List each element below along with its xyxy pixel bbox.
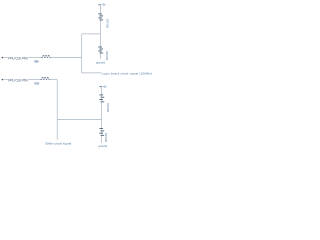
resistor R0336 (bottom chain upper) [99, 95, 104, 102]
power +5V (top chain) [98, 3, 106, 7]
wire R0337 to corner [49, 79, 57, 81]
resistor R0333 (top chain upper) [98, 14, 103, 20]
wire +5V to R0333 [100, 5, 102, 14]
svg-text:50khz clock signal: 50khz clock signal [45, 142, 71, 146]
wire left leg down [81, 34, 83, 73]
wire vertical drop (row 2 net) [56, 80, 58, 140]
wire to logic board label [82, 72, 102, 74]
wire arrow stub row 2 [3, 79, 8, 81]
svg-text:ground: ground [96, 61, 105, 65]
wire arrow stub row 1 [3, 57, 8, 59]
wire label to R0334 [28, 57, 42, 59]
wire junction left [82, 33, 101, 35]
wire R0333 to junction and R0335 [100, 21, 102, 47]
wire through R0336 body [101, 95, 103, 103]
wire tee to bottom chain [57, 119, 101, 121]
svg-text:R0337: R0337 [34, 81, 40, 85]
svg-text:Logic board clock signal (10MH: Logic board clock signal (10MHz) [102, 71, 153, 75]
wire through R0338 body [101, 128, 103, 136]
svg-text:+5v: +5v [102, 3, 107, 7]
svg-text:+5v: +5v [103, 84, 108, 88]
svg-text:R0333: R0333 [105, 19, 109, 28]
wire label to R0337 [28, 79, 41, 81]
wire R0335 to ground [100, 54, 102, 59]
resistor R0338 (bottom chain lower) [99, 129, 104, 136]
wire R0336 to junction and R0338 [101, 102, 103, 128]
wire R0334 to left leg [50, 57, 82, 59]
resistor R0334 (horizontal row 1) [42, 56, 51, 58]
svg-text:R0338: R0338 [104, 133, 108, 142]
wire through R0335 body [100, 47, 102, 54]
power +5V (bottom chain) [99, 84, 107, 88]
pin arrow FPU CLK PIN (row 1) [1, 57, 3, 59]
svg-text:ground: ground [99, 144, 108, 148]
svg-text:FPU CLK PIN: FPU CLK PIN [8, 56, 28, 60]
svg-text:R0336: R0336 [106, 103, 110, 112]
svg-text:R0335: R0335 [105, 51, 109, 60]
wire through R0333 body [100, 14, 102, 21]
svg-text:R0334: R0334 [34, 59, 40, 63]
svg-text:FPU CLK PIN: FPU CLK PIN [8, 78, 28, 82]
resistor R0337 (horizontal row 2) [41, 78, 50, 80]
wire R0338 to ground [101, 136, 103, 143]
resistor R0335 (top chain lower) [98, 47, 103, 53]
pin arrow FPU CLK PIN (row 2) [1, 79, 3, 81]
wire +5V to R0336 [101, 87, 103, 95]
